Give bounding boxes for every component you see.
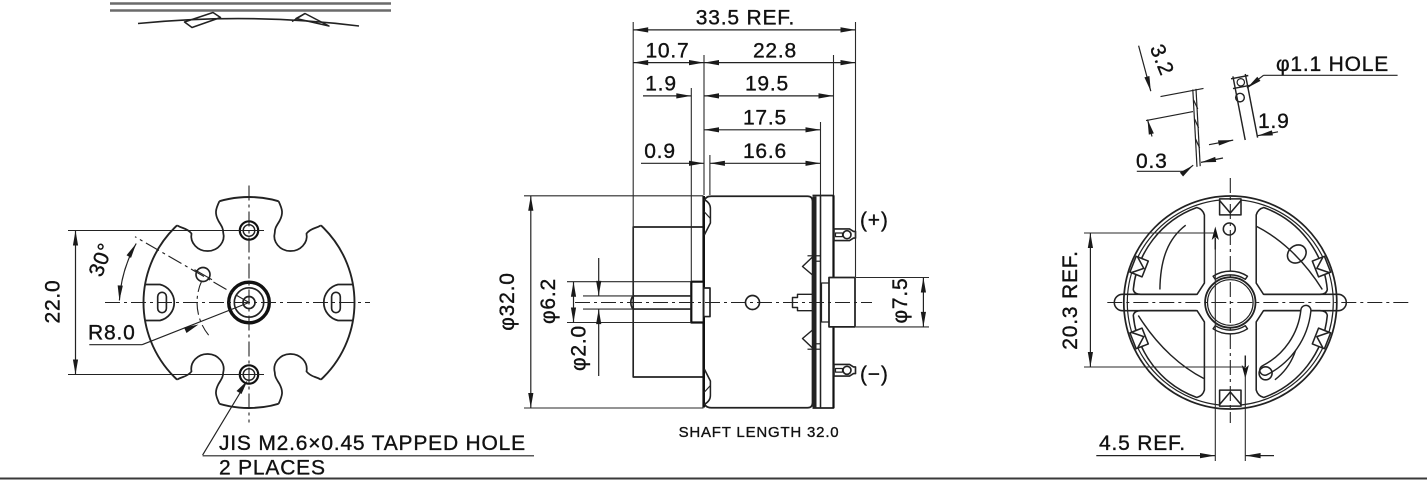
shaft phi 2.0 — [631, 296, 691, 309]
top fragment: double gray rule — [110, 4, 391, 11]
dim 19.5 — [704, 95, 834, 97]
bearing retainer arc bottom — [1213, 326, 1247, 334]
svg-text:30°: 30° — [85, 240, 118, 280]
svg-text:22.0: 22.0 — [42, 279, 65, 323]
right slot bump — [324, 285, 353, 321]
right slot — [332, 292, 341, 312]
svg-text:φ6.2: φ6.2 — [537, 278, 560, 324]
endbell rear face bold — [832, 196, 834, 409]
svg-text:20.3 REF.: 20.3 REF. — [1059, 250, 1082, 349]
dim phi7.5 line — [922, 278, 924, 327]
dim phi32 extension lines — [524, 195, 704, 197]
rear crimp triangle bottom — [803, 330, 813, 348]
top tapped hole — [234, 221, 264, 239]
svg-text:33.5 REF.: 33.5 REF. — [696, 7, 795, 30]
small vent hole lower right — [1259, 367, 1272, 380]
rear crimp band dark — [813, 197, 817, 408]
svg-text:10.7: 10.7 — [645, 39, 689, 62]
middle view horizontal centerline — [575, 302, 872, 304]
front mounting plate — [633, 227, 704, 377]
dim phi2.0 arrows outside — [598, 258, 600, 296]
dim phi2.0 extension lines — [583, 295, 634, 297]
top fragment: arc with flag and arrow (cut-off figure above) — [138, 13, 359, 28]
index hole on R8 circle at 30deg — [196, 268, 210, 282]
svg-text:φ2.0: φ2.0 — [568, 325, 591, 371]
right view dimensions — [1059, 41, 1398, 461]
center bearing circles — [1205, 277, 1255, 327]
dim phi32 line — [530, 196, 532, 408]
svg-text:φ32.0: φ32.0 — [496, 272, 519, 331]
horizontal bar — [1114, 294, 1346, 310]
R8.0 dashed arc — [197, 281, 211, 338]
oval vent slot upper right — [1284, 241, 1310, 267]
endbell outline — [813, 196, 834, 409]
left view outer circle (motor face) — [144, 197, 355, 408]
inner rim circle — [1127, 200, 1333, 406]
can front face bold line — [702, 196, 705, 408]
right view vertical centerline — [1229, 178, 1231, 423]
bottom tapped hole — [234, 365, 264, 383]
front crimp tab bottom — [704, 369, 710, 405]
svg-text:3.2: 3.2 — [1145, 41, 1178, 79]
terminal nib bottom — [1242, 356, 1249, 379]
left slot — [158, 292, 167, 312]
dim 4.5 extension lines — [1214, 240, 1216, 461]
small hole top (phi 1.1) — [1223, 223, 1235, 235]
dim 33.5 REF — [633, 29, 855, 31]
R8.0 leader line — [89, 303, 249, 345]
svg-text:1.9: 1.9 — [1258, 110, 1290, 133]
svg-text:SHAFT LENGTH 32.0: SHAFT LENGTH 32.0 — [679, 424, 840, 441]
svg-text:JIS M2.6×0.45 TAPPED HOLE: JIS M2.6×0.45 TAPPED HOLE — [219, 432, 526, 455]
motor can side outline — [704, 196, 813, 407]
dim 4.5 lines with outside arrows — [1096, 455, 1215, 457]
outer circle — [1124, 196, 1337, 409]
rear cover lines — [820, 196, 822, 409]
dim 3.2 leader and arrows — [1139, 46, 1151, 91]
rear boss phi 7.5 — [829, 278, 855, 327]
terminal tab minus — [834, 364, 856, 376]
dim 1.9 — [643, 95, 691, 97]
crimp tab top — [1220, 199, 1241, 215]
rear crimp triangle top — [803, 257, 813, 275]
dim 16.6 — [710, 162, 821, 164]
terminal tab plus — [834, 229, 856, 241]
detail tick lines for 3.2 — [1161, 88, 1204, 96]
right view horizontal centerline — [1107, 302, 1412, 304]
svg-text:(+): (+) — [860, 209, 889, 232]
svg-text:φ1.1 HOLE: φ1.1 HOLE — [1276, 53, 1389, 76]
dimension 22.0 extension lines — [68, 230, 241, 232]
dim 20.3 extension lines — [1084, 232, 1215, 234]
window upper-right outline — [1256, 208, 1327, 295]
vertical centerline — [248, 186, 250, 423]
svg-text:19.5: 19.5 — [745, 73, 789, 96]
bottom border line — [0, 478, 1427, 480]
extension lines vertical — [633, 22, 855, 292]
svg-text:0.3: 0.3 — [1136, 150, 1168, 173]
dim phi6.2 line — [573, 282, 575, 323]
bearing retainer arc top — [1213, 271, 1247, 279]
svg-text:1.9: 1.9 — [645, 73, 677, 96]
window inner sweep curves — [1257, 227, 1323, 290]
svg-text:φ7.5: φ7.5 — [889, 277, 912, 323]
dimension 22.0 line — [75, 231, 77, 375]
JIS tapped hole leader — [203, 381, 248, 456]
rear crimp ledge top — [808, 256, 821, 349]
left slot bump — [145, 285, 174, 321]
curved vent slot lower right — [1265, 310, 1306, 370]
dim phi6.2 extension lines — [567, 281, 691, 283]
dim 1.9 arrows — [1209, 140, 1233, 145]
terminal detail edge view strip — [1193, 89, 1200, 167]
30 degree angled centerline — [135, 237, 249, 303]
rear inner bearing pocket — [793, 294, 813, 310]
can side hole — [746, 296, 760, 310]
svg-text:R8.0: R8.0 — [88, 322, 136, 345]
dim 22.8 — [704, 62, 856, 64]
dim 0.3 arrows — [1137, 170, 1186, 172]
front crimp tab top — [704, 200, 710, 236]
crimp tab side (4x) — [1130, 328, 1148, 349]
svg-text:0.9: 0.9 — [644, 140, 676, 163]
dim 20.3 line — [1089, 233, 1091, 367]
svg-text:4.5 REF.: 4.5 REF. — [1099, 432, 1186, 455]
dim 10.7 — [633, 62, 704, 64]
scallop cutout top-left — [168, 188, 224, 251]
boss step (0.9) — [704, 288, 710, 317]
svg-text:17.5: 17.5 — [743, 107, 787, 130]
horizontal centerline — [105, 302, 370, 304]
svg-text:22.8: 22.8 — [753, 39, 797, 62]
svg-text:16.6: 16.6 — [743, 140, 787, 163]
terminal nib top — [1212, 227, 1219, 250]
dim 17.5 — [704, 129, 821, 131]
dimension 30 deg arc — [119, 244, 136, 301]
dim 0.9 — [641, 162, 704, 164]
middle view dimensions — [496, 7, 929, 442]
terminal detail face view strip — [1231, 74, 1258, 140]
center shaft boss circles — [229, 282, 270, 323]
dim phi7.5 extension lines — [856, 277, 929, 279]
svg-text:(−): (−) — [860, 363, 889, 386]
bearing boss (phi 6.2) — [691, 282, 703, 323]
phi 1.1 hole in detail — [1236, 93, 1245, 102]
endbell bearing detail — [822, 283, 830, 322]
svg-text:2 PLACES: 2 PLACES — [219, 457, 326, 480]
